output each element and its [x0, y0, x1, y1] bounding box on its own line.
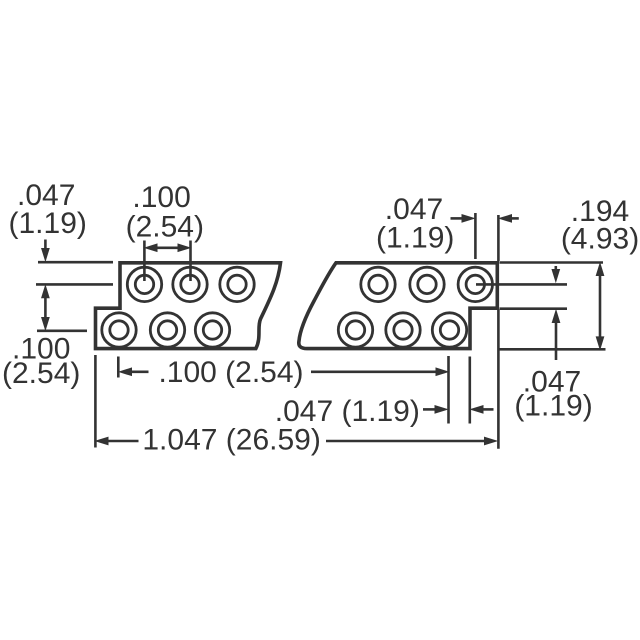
dimension line .194 vertical double arrow	[596, 264, 603, 349]
hole right top 1	[361, 267, 395, 301]
dimension line 1.047 left arrow	[96, 437, 139, 444]
extension line right top hole 3 vertical	[474, 213, 477, 259]
hole right bottom 3	[432, 313, 466, 347]
hole left bottom 1	[102, 313, 136, 347]
hole left top 2	[173, 267, 207, 301]
dimension arrow .047 left (down)	[42, 240, 49, 261]
dimension arrow .047 right (down)	[552, 266, 559, 282]
dimension arrow .047 top right (pointing left)	[500, 215, 519, 222]
dimension arrow .047 top right (pointing right)	[451, 215, 475, 222]
left part outline	[96, 263, 281, 349]
extension line below right step corner	[468, 357, 471, 424]
extension line top hole 1	[143, 241, 146, 282]
hole right bottom 1	[338, 313, 372, 347]
hole right bottom 2	[386, 313, 420, 347]
dimension line .100 bottom right arrow	[311, 368, 448, 375]
svg-text:1.047 (26.59): 1.047 (26.59)	[142, 423, 320, 456]
dimension arrow .047 right (up) with tail	[552, 311, 559, 361]
extension line below left part corner	[94, 355, 97, 448]
extension line right of top edge	[500, 261, 604, 264]
extension line right of step edge	[500, 307, 568, 310]
hole left bottom 2	[150, 313, 184, 347]
extension line left bottom row center	[37, 329, 87, 332]
extension line left top edge	[38, 261, 113, 264]
dimension line .100 top double arrow	[145, 244, 190, 251]
dimension line 1.047 right arrow	[326, 437, 497, 444]
dimension arrow .047 bottom (pointing right)	[423, 406, 447, 413]
extension line right edge vertical upper	[497, 215, 500, 261]
svg-text:(1.19): (1.19)	[9, 207, 87, 240]
extension line below right bottom hole 3	[447, 356, 450, 424]
extension tick below left bottom hole 1	[117, 357, 120, 378]
hole left bottom 3	[195, 313, 229, 347]
extension line right edge vertical lower	[497, 310, 500, 449]
extension line top hole 2	[189, 241, 192, 282]
svg-text:.100: .100	[132, 181, 190, 214]
dimension arrow .047 bottom (pointing left)	[471, 406, 494, 413]
svg-text:.100 (2.54): .100 (2.54)	[158, 356, 303, 389]
extension line right of bottom edge	[500, 348, 606, 351]
extension line left top row center	[36, 283, 113, 286]
leader line from right top hole 3 center	[476, 283, 567, 286]
svg-text:(2.54): (2.54)	[126, 211, 204, 244]
hole left top 1	[127, 267, 161, 301]
svg-text:(2.54): (2.54)	[2, 357, 80, 390]
svg-text:(4.93): (4.93)	[561, 223, 639, 256]
right part outline	[299, 263, 498, 349]
dimension line .100 bottom left arrow	[120, 368, 149, 375]
svg-text:(1.19): (1.19)	[376, 222, 454, 255]
dimension line .100 left vertical double arrow	[42, 286, 49, 330]
hole right top 2	[410, 267, 444, 301]
hole left top 3	[220, 267, 254, 301]
hole right top 3	[458, 267, 492, 301]
svg-text:(1.19): (1.19)	[514, 389, 592, 422]
